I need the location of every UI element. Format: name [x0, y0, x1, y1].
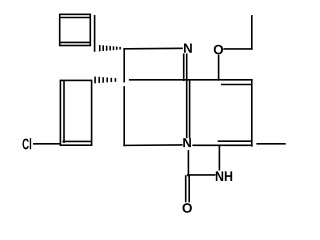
bond carbonyl C to NH [188, 174, 215, 176]
wire: central ring left edge lower segment (C10-C9) [123, 87, 125, 145]
bond C10 to right ring (top edge of ring C, y=79.8) [130, 79, 252, 81]
label NH [216, 171, 232, 181]
bond O(ethoxy) to CH2 [224, 48, 252, 50]
double bond N1=C pair [184, 54, 190, 137]
benzene ring B1 (top-left phenyl, drawn as square) [60, 14, 95, 51]
bond C11 to N1 (central ring top edge) [124, 47, 182, 50]
double bond inner top line of B1 [61, 17, 89, 19]
label O_carb [183, 203, 192, 213]
bond Cl to B2 [34, 143, 60, 145]
bond CH2 to CH3 (ethyl vertical) [251, 16, 253, 49]
label N1 [184, 44, 192, 53]
double bond C=O pair [186, 176, 190, 201]
double bond inner line below ring C top edge [222, 84, 251, 86]
wire: central ring left edge upper segment (C11-C10) [123, 49, 125, 82]
label O_eth [214, 45, 223, 55]
bond ring C bottom to NH (vertical) [218, 146, 220, 170]
double bond inner line above ring C bottom edge [219, 140, 252, 142]
double bond inner bottom line of B2 [63, 140, 91, 142]
hashed stereo bond from chlorophenyl B2 to C10 [95, 77, 115, 84]
double bond inner bottom line of B1 [61, 41, 89, 43]
benzene ring B2 (4-chlorophenyl, drawn as rectangle) [60, 80, 91, 145]
hashed stereo bond from B1 to ring-junction carbon C11 [100, 45, 120, 51]
bond O(ethoxy) down to ring C [218, 56, 220, 80]
double bond outer right line of B1 [94, 16, 96, 51]
bond C9 to N2 (central ring bottom edge) [124, 144, 182, 147]
label Cl [22, 138, 31, 149]
double bond inner left line of B2 [63, 82, 65, 142]
label N2 [183, 138, 191, 147]
wire: ring C right edge [251, 80, 253, 146]
bond methyl CH3 [257, 143, 285, 145]
bond N2 down to carbonyl C [187, 151, 189, 176]
bond N2 to ring C bottom-right (bottom edge) [193, 144, 252, 146]
